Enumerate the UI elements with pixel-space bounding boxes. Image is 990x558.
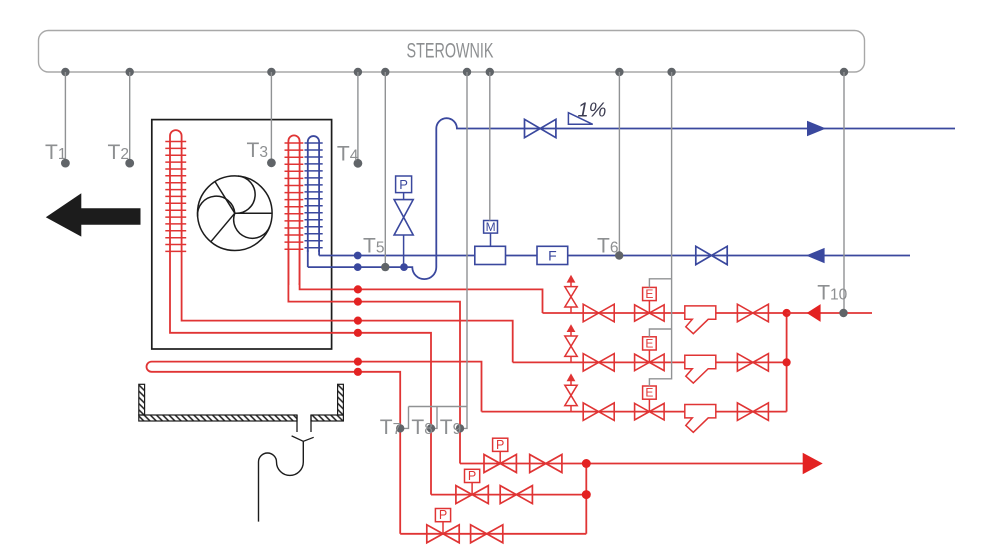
- svg-text:F: F: [548, 247, 557, 263]
- strainer row 2: [685, 355, 716, 383]
- blue valve on top line: [525, 119, 556, 137]
- drip tray left wall: [139, 384, 145, 415]
- drip tray bottom slab: [139, 415, 344, 421]
- heating branch row 1 pipe: [543, 312, 787, 314]
- red arrow right row A: [803, 453, 823, 475]
- motor M control wire: [489, 72, 491, 221]
- shut-off valve 2 row 1: [737, 304, 768, 322]
- sensor T2: [108, 72, 135, 168]
- heating branch row 2 pipe: [513, 361, 787, 363]
- svg-text:P: P: [399, 177, 408, 192]
- shut-off valve 2 row 3: [737, 403, 768, 421]
- red junction dots column: [354, 285, 362, 376]
- red pipe L2: right coil inner leg down to bottom row A: [288, 250, 460, 464]
- air vent valve (row y=411.6): [565, 373, 577, 411]
- sensor T10 wire: [817, 72, 848, 317]
- sensor T5 wire to blue line 2: [363, 72, 389, 271]
- svg-text:M: M: [486, 220, 496, 234]
- drain funnel: [292, 436, 314, 441]
- drain outlet stub: [297, 415, 311, 432]
- svg-text:E: E: [645, 287, 653, 301]
- sensor T6 wire to blue line 1: [597, 72, 623, 260]
- sensor T3: [247, 72, 276, 167]
- blue pipe: coil leg to supply line (line 1): [319, 255, 475, 257]
- red hairpin header L5/L6: [147, 362, 482, 534]
- strainer row 1: [685, 306, 716, 334]
- red pipe L1: right coil outer leg to row 1: [300, 283, 543, 313]
- drip tray right wall: [338, 384, 344, 415]
- sensor T1: [45, 72, 70, 168]
- red supply line right with arrow: [787, 312, 872, 314]
- pump P row B: [456, 469, 488, 504]
- condenser coil blue: [305, 136, 323, 252]
- air vent valve (row y=362.4): [565, 324, 577, 362]
- controller terminal dots: [61, 68, 848, 76]
- heating branch row 3 pipe: [482, 411, 787, 413]
- svg-text:STEROWNIK: STEROWNIK: [407, 39, 494, 63]
- electric valve E2: [635, 336, 665, 370]
- source row A pipe: [460, 463, 803, 465]
- svg-text:P: P: [439, 508, 447, 522]
- red pipe L3: left coil inner leg to row 2: [182, 252, 513, 362]
- electric valve E1: [635, 287, 665, 321]
- red pipe L4: left coil outer leg down to bottom row B: [170, 252, 431, 495]
- flow switch F: [537, 246, 568, 264]
- evaporator coil left (red): [165, 130, 186, 252]
- heat pump unit box: [152, 120, 332, 349]
- svg-text:P: P: [496, 438, 504, 452]
- blue pipe: coil leg line 2 with U-dip and riser bridge: [308, 118, 955, 279]
- source row C pipe: [400, 533, 586, 535]
- right return trunk: [786, 313, 788, 412]
- shut-off valve row 2: [583, 354, 614, 372]
- svg-text:P: P: [468, 469, 476, 483]
- valve row A: [530, 455, 562, 473]
- blue arrow left (line 1): [806, 248, 825, 263]
- source row B pipe: [431, 494, 586, 496]
- pump P row A: [484, 438, 516, 473]
- pressure relief valve P (blue): [394, 176, 413, 267]
- blue arrow right (top line): [807, 121, 826, 136]
- controller STEROWNIK box: [39, 31, 865, 73]
- blue junction dots: [354, 252, 362, 260]
- svg-text:E: E: [645, 336, 653, 350]
- blue valve on return line: [696, 246, 727, 264]
- svg-text:1%: 1%: [578, 100, 607, 122]
- condenser coil red (right): [285, 135, 304, 285]
- svg-text:E: E: [645, 386, 653, 400]
- siphon trap: [259, 441, 304, 521]
- blue pipe line 1: F box to end: [506, 255, 538, 257]
- slope marker 1%: [568, 113, 592, 125]
- valve row C: [471, 525, 503, 543]
- electric valve E3: [635, 386, 665, 420]
- pump P row C: [427, 508, 459, 543]
- circulation pump with motor M: [475, 220, 506, 265]
- strainer row 3: [685, 405, 716, 433]
- legs of blue coil down to lines: [307, 250, 309, 267]
- shut-off valve row 3: [583, 403, 614, 421]
- sensor T4: [337, 72, 362, 168]
- shut-off valve row 1: [583, 304, 614, 322]
- air flow arrow: [46, 193, 141, 236]
- E valves control trunk: [649, 72, 671, 386]
- fan: [198, 176, 273, 251]
- air vent valve (row y=313.0): [565, 275, 577, 313]
- shut-off valve 2 row 2: [737, 354, 768, 372]
- valve row B: [500, 486, 532, 504]
- sensors T7 T8 T9 wiring: [380, 72, 467, 439]
- bottom collector trunk: [585, 464, 587, 534]
